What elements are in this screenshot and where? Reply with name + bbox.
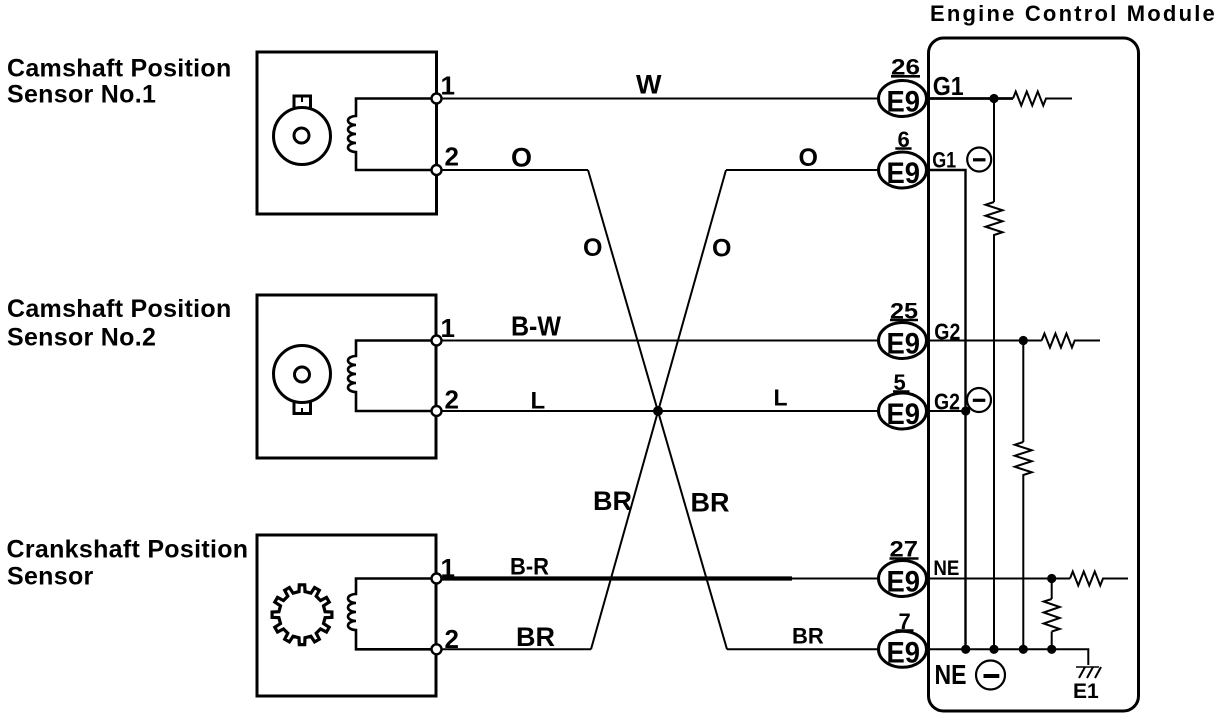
svg-text:G1: G1 (933, 71, 964, 101)
connector E9 pin 25 (879, 298, 927, 360)
svg-text:Engine Control Module: Engine Control Module (930, 1, 1216, 26)
svg-text:L: L (531, 388, 546, 415)
svg-text:1: 1 (441, 313, 455, 343)
sensor box CMP2 (257, 295, 436, 458)
connector E9 pin 27 (879, 537, 927, 599)
svg-text:G1: G1 (932, 148, 956, 173)
coil L1 (348, 99, 436, 171)
svg-text:BR: BR (792, 623, 824, 648)
pin 1 CKP (432, 574, 442, 584)
wire O diagonal ascending (591, 170, 726, 649)
wire B-R row5 (436, 578, 878, 580)
ground E1 (1073, 667, 1101, 703)
junction node G1 (989, 94, 998, 103)
svg-text:Camshaft Position: Camshaft Position (7, 295, 232, 323)
svg-text:NE: NE (933, 557, 959, 580)
svg-text:NE: NE (935, 659, 967, 690)
label G2 minus (934, 388, 991, 415)
svg-text:W: W (636, 69, 662, 99)
svg-text:O: O (511, 142, 532, 172)
wire G1- to vertical bus (927, 170, 966, 649)
svg-text:Sensor No.2: Sensor No.2 (7, 324, 156, 352)
svg-text:BR: BR (593, 486, 632, 516)
svg-text:2: 2 (445, 142, 459, 172)
wire B-W row3 (436, 340, 878, 342)
pin 2 CMP1 (432, 165, 442, 175)
wire BR row6 left (436, 648, 591, 650)
svg-text:Sensor No.1: Sensor No.1 (7, 81, 156, 109)
svg-text:E1: E1 (1073, 680, 1099, 703)
svg-text:O: O (712, 235, 731, 263)
svg-text:BR: BR (516, 622, 555, 652)
coil L3 (348, 579, 436, 650)
gear rotor CKP (272, 585, 332, 645)
ECM box (929, 38, 1139, 711)
svg-text:O: O (583, 234, 602, 262)
svg-text:O: O (799, 144, 818, 172)
label Camshaft Position Sensor No.2 (7, 295, 232, 352)
wire O row2 right (726, 169, 878, 171)
wire L row4 (436, 410, 878, 412)
wire W row1 (436, 98, 878, 100)
wire NE- row6 inside ECM (927, 649, 1088, 665)
svg-text:B-R: B-R (510, 554, 549, 581)
wire BR row6 right (727, 648, 878, 650)
svg-text:Camshaft Position: Camshaft Position (7, 55, 232, 83)
svg-text:E9: E9 (887, 398, 921, 431)
svg-text:E9: E9 (887, 157, 921, 190)
pin 1 CMP1 (432, 94, 442, 104)
label Crankshaft Position Sensor (7, 536, 249, 591)
pin 2 CMP2 (432, 406, 442, 416)
pin 1 CMP2 (432, 336, 442, 346)
resistor R6 vertical on NE bus (1044, 579, 1060, 650)
svg-text:BR: BR (691, 488, 730, 518)
label G1 minus (932, 148, 991, 173)
sensor box CMP1 (257, 52, 437, 214)
svg-text:E9: E9 (887, 86, 921, 119)
coil L2 (348, 341, 436, 412)
junction node NE (1047, 574, 1056, 583)
svg-text:2: 2 (445, 624, 459, 654)
resistor R2 vertical on G1 bus (986, 99, 1003, 650)
junction node G2 (1019, 336, 1028, 345)
pin 2 CKP (432, 644, 442, 654)
svg-text:L: L (774, 385, 788, 411)
resistor R3 horizontal (1042, 334, 1100, 348)
svg-text:Crankshaft Position: Crankshaft Position (7, 536, 249, 564)
svg-text:E9: E9 (887, 328, 921, 361)
svg-text:1: 1 (441, 553, 455, 583)
svg-text:E9: E9 (887, 636, 921, 669)
junction node G2- on bus (961, 406, 970, 415)
svg-text:2: 2 (445, 385, 459, 415)
connector E9 pin 5 (879, 370, 927, 431)
resistor R5 horizontal (1070, 572, 1128, 586)
junction nodes on NE- wire (961, 645, 1056, 654)
sensor rotor CMP1 (274, 96, 331, 165)
svg-text:B-W: B-W (511, 311, 562, 342)
wire NE inside ECM (927, 578, 1070, 580)
connector E9 pin 7 (879, 609, 927, 669)
svg-text:Sensor: Sensor (7, 563, 94, 591)
junction splice dot (653, 406, 663, 416)
sensor rotor CMP2 (274, 346, 331, 414)
svg-text:E9: E9 (887, 566, 921, 599)
wire G2- stub (927, 410, 966, 412)
resistor R4 vertical on G2 bus (1015, 341, 1032, 650)
sensor box CKP (257, 535, 436, 696)
connector E9 pin 6 (879, 127, 927, 190)
wire O diagonal descending (588, 170, 727, 649)
label NE minus (935, 659, 1006, 690)
connector E9 pin 26 (879, 55, 927, 119)
svg-text:1: 1 (441, 70, 455, 100)
wire O row2 left (436, 169, 588, 171)
wire G2 inside ECM (927, 340, 1042, 342)
wire G1 inside ECM (927, 97, 1013, 100)
resistor R1 horizontal (1013, 92, 1072, 106)
label Camshaft Position Sensor No.1 (7, 55, 232, 109)
